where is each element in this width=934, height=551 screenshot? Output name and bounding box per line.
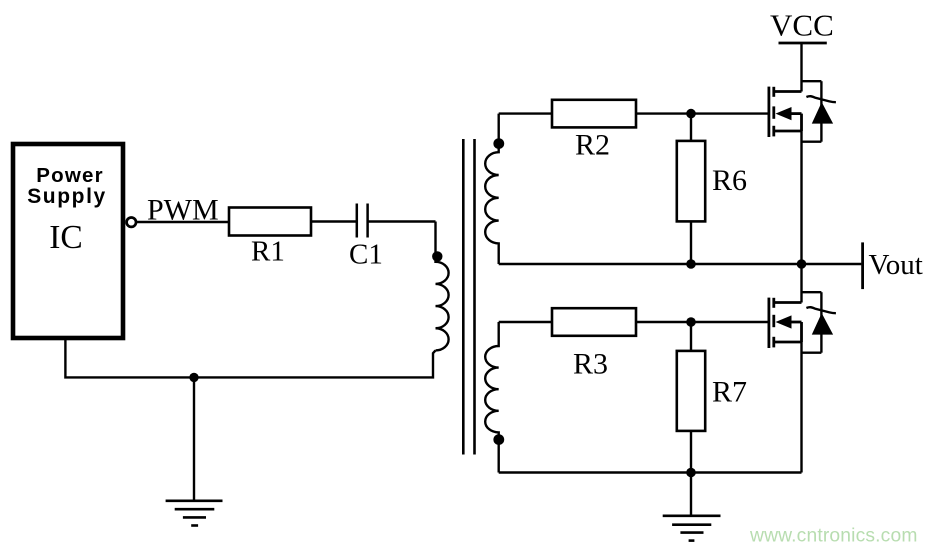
resistor R7 xyxy=(677,351,705,431)
ground symbol left xyxy=(166,501,223,526)
wire R7 to bottom rail xyxy=(690,431,692,473)
junction R6 top xyxy=(686,109,696,119)
wire R1 to C1 xyxy=(311,220,356,222)
wire junction to R6 xyxy=(690,114,692,141)
junction R6 bottom xyxy=(686,259,696,269)
junction source Q1 / drain Q2 xyxy=(797,259,807,269)
transformer core xyxy=(463,139,474,455)
wire source Q1 to output rail xyxy=(800,131,802,265)
svg-text:R2: R2 xyxy=(575,129,610,162)
junction ground node 2 xyxy=(686,468,696,478)
wire secondary top to R2 xyxy=(499,112,553,114)
output rail Vout xyxy=(499,263,862,265)
svg-text:VCC: VCC xyxy=(770,8,834,43)
wire R2 to gate Q1 xyxy=(636,112,769,114)
svg-text:C1: C1 xyxy=(349,239,383,271)
junction ground node xyxy=(189,373,198,382)
resistor R3 xyxy=(552,308,636,336)
transistor Q1 (N-MOSFET) xyxy=(769,87,802,137)
svg-text:www.cntronics.com: www.cntronics.com xyxy=(749,526,918,547)
Q1 body arrow xyxy=(776,107,792,120)
primary polarity dot xyxy=(432,251,442,261)
svg-text:R3: R3 xyxy=(573,348,608,381)
wire PWM to R1 xyxy=(136,221,230,223)
wire junction to R7 xyxy=(690,322,692,351)
resistor R1 xyxy=(229,208,311,236)
wire VCC to drain Q1 xyxy=(800,43,802,92)
power supply IC U1 xyxy=(13,144,123,338)
Q2 body diode xyxy=(802,292,836,353)
capacitor C1 xyxy=(357,204,368,238)
wire primary return to IC ground xyxy=(65,338,435,377)
svg-text:IC: IC xyxy=(49,219,83,256)
transformer secondary winding bottom xyxy=(485,322,499,473)
wire R6 to output rail xyxy=(690,221,692,264)
wire to ground 2 xyxy=(690,473,692,516)
resistor R2 xyxy=(552,100,636,128)
wire R3 to gate Q2 xyxy=(636,321,769,323)
svg-text:Supply: Supply xyxy=(27,185,107,208)
junction R7 top xyxy=(686,317,696,327)
svg-text:Vout: Vout xyxy=(869,249,923,281)
wire drain Q2 to output rail xyxy=(800,264,802,303)
transformer secondary winding top xyxy=(485,114,498,264)
VCC rail bar xyxy=(779,42,827,45)
terminal Vout xyxy=(861,242,864,289)
Q2 body arrow xyxy=(776,315,792,328)
ground symbol right xyxy=(663,516,721,541)
wire to ground 1 xyxy=(193,377,195,500)
svg-text:R6: R6 xyxy=(712,164,747,197)
wire secondary bottom to R3 xyxy=(499,321,553,323)
svg-text:R1: R1 xyxy=(251,236,285,268)
Q1 body diode xyxy=(802,81,836,142)
wire source Q2 to bottom rail xyxy=(800,342,802,473)
transformer T1 primary winding xyxy=(436,222,449,351)
secondary bottom polarity dot xyxy=(493,434,504,445)
svg-text:Power: Power xyxy=(36,164,104,187)
transistor Q2 (N-MOSFET) xyxy=(769,298,802,348)
resistor R6 xyxy=(677,141,705,222)
secondary top polarity dot xyxy=(493,138,504,149)
bottom rail xyxy=(499,471,802,473)
PWM output terminal xyxy=(127,218,136,227)
wire C1 to transformer primary xyxy=(368,220,436,222)
svg-text:R7: R7 xyxy=(712,376,747,409)
